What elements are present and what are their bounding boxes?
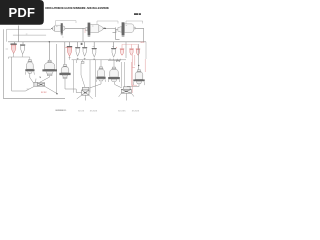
svg-text:XX.XX: XX.XX [78,110,85,112]
instrument on header x81.5 [81,43,83,45]
drum D1: foot [61,34,63,36]
svg-text:xx: xx [93,46,95,48]
wire: drop from header to V2 [48,42,50,60]
drum D1: inlet nub [51,28,52,30]
valve ticks at hopper tips [69,56,96,60]
svg-text:xx: xx [126,25,128,27]
wire: long vertical x95.5 [95,60,97,97]
svg-text:xx: xx [26,33,28,35]
vessel V6 (right) [133,66,144,85]
wire: V6 bottom line left [127,84,139,87]
drum D2: foot [88,35,91,37]
drum D2: body [90,25,99,33]
wire: V3 discharge down to F2 [65,78,82,92]
gray vertical x126 [125,42,127,58]
svg-text:xxx: xxx [6,48,9,50]
wire: D3 outlet down to header [135,28,143,42]
vessel V5 [108,67,120,82]
svg-text:CIRCULATION DE GAZ DE SOMMAIRE: CIRCULATION DE GAZ DE SOMMAIRE - NOUVELL… [45,6,109,10]
svg-text:XX.XXX: XX.XXX [118,110,126,112]
feeder F3 (cap box) [124,87,131,90]
drum D2: flange [88,23,91,36]
node: junction on D2 outlet [105,28,106,29]
wire: small fittings above V5 [108,59,121,68]
feeder F2 (X box) [77,90,93,101]
red drop to F3 [131,59,133,93]
red hopper R2 [129,48,133,49]
wire: V4 discharge to F2 [90,82,102,88]
vessel V3 [59,65,70,79]
wire: far-left pipe down [3,29,65,98]
wire: hoppers P1/W1 discharge to V1 [9,53,30,60]
red vertical right edge [144,59,146,72]
drum D3: end nub [134,27,135,29]
wire: V1 discharge down [30,73,34,83]
hopper W2 [75,47,80,56]
wire: drop between D2 and D3 [116,27,120,39]
hopper P2 (pink) [67,46,72,57]
drum D2: right cone [99,25,103,32]
vessel V1 [25,60,34,75]
wire: left vertical from badge [18,26,20,42]
wire: V5 discharge to F3 [115,82,127,89]
hopper W1 [20,44,25,54]
wire: vertical x56.7 down to feeder F1 node [56,44,58,94]
vessel V4 [96,67,105,82]
red header over hoppers [122,43,138,45]
hopper W4 [92,48,97,57]
svg-text:XX.XXX: XX.XXX [132,110,140,112]
drum D1: left frustum [53,26,55,31]
drum D3: left cone [118,27,122,33]
node at x57 [56,93,57,94]
drum D1: body [55,25,61,31]
svg-text:xx: xx [112,46,114,48]
wire: short vertical x76.5 [76,60,78,63]
svg-text:xx: xx [62,36,64,38]
wire: drop header to V4 [100,60,102,67]
wire: verticals to F3 [122,62,125,87]
drum D3: body [125,24,135,32]
wire: V2 discharge diagonal to feeder F1 [36,76,50,83]
wire: long vertical x73.5 [73,60,75,93]
svg-text:xxx: xxx [27,88,30,90]
svg-text:xx xx: xx xx [41,91,47,94]
wire: drop between D1 and D2 [82,28,84,42]
red hopper R1 [120,48,124,49]
svg-text:CHESTERBRADFORD: CHESTERBRADFORD [55,109,67,112]
drum D3: flange [122,22,125,35]
wire: D3 inlet [113,29,118,32]
wire: vent line above drum D3 [126,21,143,24]
gray vertical right x146 [145,42,147,59]
gray vertical x138.7 with node [138,44,140,70]
hopper W5 [111,47,117,57]
wire: vent line above drum D2 [97,21,118,25]
wire: collecting header y59.8 [72,59,126,61]
red pipe pair down right [132,55,135,68]
drum D1: right frustum [63,26,65,31]
feeder F3 (X box) [119,89,134,100]
svg-text:XX.XXX: XX.XXX [90,110,98,112]
red vertical long with elbow [131,62,137,85]
PDF badge [0,0,44,25]
hopper W3 [82,47,87,56]
vessel V2 [42,60,57,75]
red tick below drum line [84,29,86,33]
valve on V5 feed [116,60,119,62]
svg-text:xx: xx [92,26,94,28]
instrument fitting on header [81,61,84,63]
arrow tick near F1 [40,76,41,78]
drum D2: left cone [85,27,87,31]
wire: drops from header to hoppers [15,42,114,48]
feeder F2 (cap box) [82,87,89,90]
drum D3: foot [122,35,125,37]
wire: vent line above drum D1 [56,21,77,26]
red pipes above red hoppers [122,44,138,48]
drum D2: end nub [103,27,105,29]
node on x138.7 [138,65,139,66]
node on header at V2 drop [49,41,50,42]
wire: D2 outlet [105,27,116,29]
svg-text:PDF: PDF [8,5,35,20]
hopper P1 (pink) [11,43,17,54]
wire: F1 discharge left [12,57,35,91]
wire: D1 outlet to D2 [65,27,86,29]
wire: recycle line under badge [7,28,51,30]
svg-text:xx: xx [56,26,58,28]
rev label top right [134,13,138,15]
drum D1: flange [61,23,63,34]
wire: header line [8,41,146,43]
wire: W5 down to fittings [113,59,115,60]
wire: long vertical x90 [89,60,91,93]
wire: vertical x81 diagonal to F2 [81,63,85,87]
wire: drop from header to V3 [64,42,66,65]
feeder F1 (horizontal screw feeder) [34,82,45,86]
wire: F1 discharge right diagonal [45,86,57,93]
red hopper R3 [136,48,140,49]
